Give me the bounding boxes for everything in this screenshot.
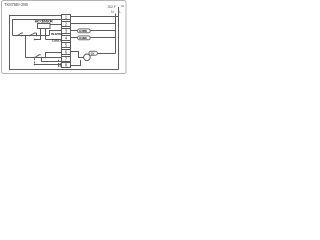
svg-text:302 F: 302 F	[108, 5, 117, 9]
wire riser to pin6	[46, 53, 62, 58]
wire motor to rail V5	[98, 53, 116, 55]
pin numbers 1-8	[65, 15, 68, 68]
svg-text:A/C CENSOR: A/C CENSOR	[35, 19, 54, 23]
rail V5	[115, 14, 117, 54]
svg-text:L: L	[119, 10, 121, 14]
wire box to pin2	[50, 24, 62, 26]
wire riser to pin3	[50, 31, 62, 36]
rail V6	[118, 7, 120, 70]
switch S1 blade	[18, 33, 24, 36]
connector body rail left	[61, 15, 63, 68]
wire second feed to pin1 with left drop	[13, 20, 62, 36]
label dash top right	[121, 5, 124, 8]
wire to pin8	[35, 64, 62, 66]
wire lower branch to pin7 bottom	[42, 58, 62, 62]
svg-text:N: N	[111, 10, 114, 14]
svg-text:GY/BK: GY/BK	[79, 36, 88, 40]
wire switch row 1	[13, 35, 50, 37]
svg-text:GY: GY	[91, 52, 95, 56]
junction dots	[16, 35, 46, 66]
wire pin8 riser to motor	[71, 60, 81, 66]
photo frame	[2, 1, 127, 74]
wire sensor box leg B	[45, 29, 47, 40]
wire pin2 to rail V5	[71, 23, 116, 25]
svg-text:BLK/YEL: BLK/YEL	[51, 32, 63, 36]
motor circle	[84, 54, 91, 61]
wire drop to pin8 row (dashed splice)	[34, 59, 36, 64]
wire pin3 to rail V5	[71, 30, 116, 32]
wire sensor box leg A with hook	[35, 29, 41, 40]
wire S2 contact drop	[36, 33, 38, 36]
motor oval label outline	[89, 51, 98, 55]
connector body rail right	[70, 15, 72, 68]
switch S3 blade	[35, 55, 41, 58]
svg-text:COOL A: COOL A	[52, 38, 63, 42]
wire pin1 to right rails	[71, 16, 119, 18]
splice capsule on pin3 wire	[78, 29, 91, 33]
wire upper loop: top feed, left rail, bottom rail	[10, 16, 119, 70]
wire switch row 2	[26, 57, 62, 59]
splice capsule on pin4 wire	[78, 36, 91, 40]
connector pin boxes	[62, 15, 71, 68]
switch S2 blade	[30, 33, 37, 36]
wire pin4 to rail V5	[71, 37, 116, 39]
wire drop row1 to row2	[25, 36, 27, 58]
wire pin6 step to motor	[71, 52, 84, 58]
svg-text:TK875B+286: TK875B+286	[4, 2, 29, 7]
svg-text:GY/RD: GY/RD	[79, 29, 87, 33]
wire pin4 feed	[46, 39, 62, 41]
sensor box	[38, 24, 51, 29]
inline connector tick on pin7 branch	[58, 60, 60, 62]
inline connector ticks before pin8	[58, 63, 60, 67]
